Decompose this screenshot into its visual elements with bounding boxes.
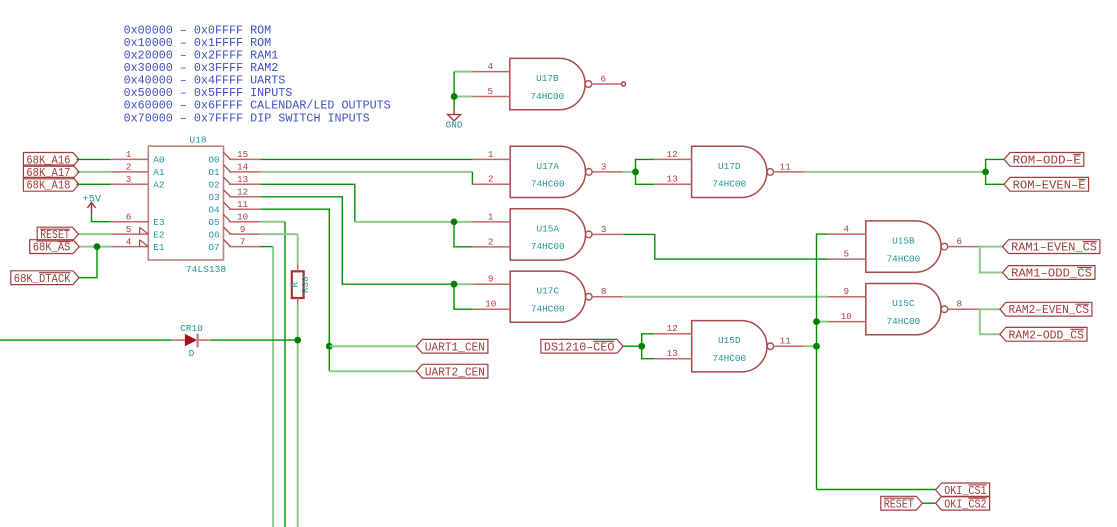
svg-text:5: 5 (488, 86, 494, 97)
svg-text:RAM2–EVEN_CS: RAM2–EVEN_CS (1009, 303, 1089, 317)
svg-text:11: 11 (237, 199, 249, 210)
svg-text:O7: O7 (208, 242, 219, 253)
svg-text:2: 2 (488, 174, 494, 185)
svg-text:6: 6 (126, 212, 132, 223)
svg-text:10: 10 (485, 299, 496, 310)
svg-text:68K_A18: 68K_A18 (26, 178, 70, 192)
svg-text:O3: O3 (208, 192, 220, 203)
svg-text:74HC00: 74HC00 (531, 91, 565, 102)
svg-text:4: 4 (488, 61, 494, 72)
svg-text:O0: O0 (208, 155, 220, 166)
svg-text:13: 13 (667, 174, 678, 185)
svg-text:U15B: U15B (892, 236, 915, 247)
svg-text:68K_DTACK: 68K_DTACK (14, 272, 71, 286)
svg-text:1: 1 (488, 149, 494, 160)
svg-text:U18: U18 (189, 135, 207, 146)
svg-text:9: 9 (488, 274, 494, 285)
svg-text:A1: A1 (153, 167, 165, 178)
svg-text:1: 1 (488, 211, 494, 222)
svg-text:3: 3 (126, 174, 132, 185)
svg-text:3: 3 (601, 161, 607, 172)
svg-text:O1: O1 (208, 167, 220, 178)
svg-text:9: 9 (240, 224, 246, 235)
svg-text:12: 12 (237, 187, 248, 198)
svg-text:O2: O2 (208, 180, 219, 191)
svg-text:R: R (289, 282, 300, 288)
svg-text:11: 11 (780, 336, 792, 347)
svg-text:2: 2 (488, 236, 494, 247)
svg-text:OKI_CS2: OKI_CS2 (944, 497, 986, 511)
svg-text:O5: O5 (208, 217, 220, 228)
svg-text:U17D: U17D (718, 161, 741, 172)
svg-text:DS1210–CEO: DS1210–CEO (544, 340, 615, 354)
svg-text:74HC00: 74HC00 (887, 253, 921, 264)
svg-text:74HC00: 74HC00 (531, 241, 565, 252)
svg-text:U15C: U15C (892, 298, 915, 309)
svg-text:10: 10 (841, 311, 852, 322)
svg-text:14: 14 (237, 162, 249, 173)
svg-text:3: 3 (601, 224, 607, 235)
svg-text:ROM–ODD–E: ROM–ODD–E (1013, 154, 1081, 168)
svg-text:7: 7 (240, 236, 246, 247)
svg-text:74HC00: 74HC00 (531, 179, 565, 190)
svg-text:5: 5 (126, 224, 132, 235)
svg-text:4: 4 (126, 236, 132, 247)
svg-text:74LS138: 74LS138 (186, 264, 227, 275)
svg-text:15: 15 (237, 149, 248, 160)
svg-text:+5V: +5V (83, 193, 102, 205)
svg-text:2: 2 (126, 162, 132, 173)
svg-text:0x70000 – 0x7FFFF DIP SWITCH I: 0x70000 – 0x7FFFF DIP SWITCH INPUTS (124, 111, 370, 125)
svg-text:O4: O4 (208, 205, 220, 216)
svg-text:A0: A0 (153, 155, 165, 166)
svg-text:E1: E1 (153, 242, 165, 253)
svg-text:8: 8 (957, 299, 963, 310)
svg-text:CR10: CR10 (180, 323, 203, 334)
svg-text:5: 5 (844, 249, 850, 260)
svg-text:8: 8 (601, 286, 607, 297)
svg-text:U15D: U15D (718, 335, 741, 346)
svg-text:GND: GND (446, 119, 463, 130)
svg-text:11: 11 (780, 161, 792, 172)
svg-text:U17C: U17C (537, 286, 560, 297)
svg-text:13: 13 (667, 348, 678, 359)
svg-text:1: 1 (126, 149, 132, 160)
svg-text:D: D (189, 348, 195, 359)
svg-text:RESET: RESET (884, 497, 914, 511)
svg-text:R38: R38 (300, 276, 311, 293)
svg-text:74HC00: 74HC00 (887, 316, 921, 327)
svg-text:UART2_CEN: UART2_CEN (425, 365, 485, 379)
svg-text:74HC00: 74HC00 (531, 304, 565, 315)
svg-text:E2: E2 (153, 229, 164, 240)
svg-text:RAM1–EVEN_CS: RAM1–EVEN_CS (1011, 241, 1097, 255)
svg-text:U17A: U17A (537, 161, 560, 172)
svg-text:6: 6 (957, 236, 963, 247)
svg-text:13: 13 (237, 174, 248, 185)
svg-text:U15A: U15A (537, 223, 560, 234)
svg-text:RAM1–ODD_CS: RAM1–ODD_CS (1011, 267, 1092, 281)
svg-text:O6: O6 (208, 229, 220, 240)
svg-text:68K_AS: 68K_AS (33, 241, 71, 255)
svg-text:12: 12 (667, 149, 678, 160)
svg-text:4: 4 (844, 224, 850, 235)
svg-text:U17B: U17B (536, 73, 559, 84)
svg-text:9: 9 (844, 286, 850, 297)
svg-text:UART1_CEN: UART1_CEN (425, 340, 485, 354)
svg-text:74HC00: 74HC00 (712, 353, 746, 364)
svg-text:10: 10 (237, 212, 248, 223)
svg-text:RAM2–ODD_CS: RAM2–ODD_CS (1009, 328, 1085, 342)
svg-text:12: 12 (667, 323, 678, 334)
svg-text:74HC00: 74HC00 (712, 179, 746, 190)
svg-text:A2: A2 (153, 180, 164, 191)
svg-text:6: 6 (601, 74, 607, 85)
svg-text:E3: E3 (153, 217, 165, 228)
svg-text:ROM–EVEN–E: ROM–EVEN–E (1013, 178, 1086, 192)
